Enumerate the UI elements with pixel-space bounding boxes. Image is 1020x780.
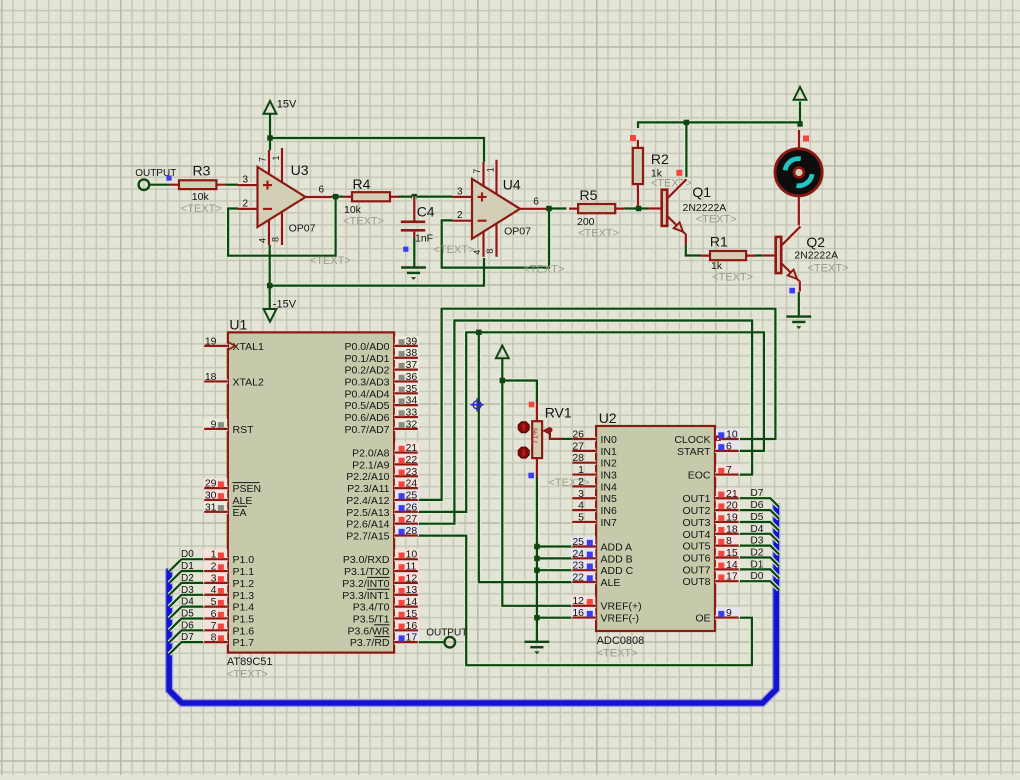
Q2 base lead xyxy=(762,253,776,257)
svg-text:P0.0/AD0: P0.0/AD0 xyxy=(345,341,390,353)
svg-text:CLOCK: CLOCK xyxy=(674,434,710,446)
svg-text:U4: U4 xyxy=(503,177,521,193)
svg-text:15V: 15V xyxy=(277,99,297,111)
svg-text:28: 28 xyxy=(406,525,418,537)
svg-text:P3.3/INT1: P3.3/INT1 xyxy=(342,590,389,602)
wire bus entry D7 (U1) xyxy=(169,642,204,654)
data bus D0-D7 xyxy=(169,503,776,703)
wire P3.7 to OUTPUT terminal xyxy=(418,641,445,643)
wire bus entry D0 (U1) xyxy=(169,559,204,571)
svg-text:12: 12 xyxy=(406,572,418,584)
svg-text:P2.2/A10: P2.2/A10 xyxy=(346,471,389,483)
resistor R5 xyxy=(569,187,624,240)
svg-text:8: 8 xyxy=(485,249,495,254)
svg-text:2N2222A: 2N2222A xyxy=(794,250,838,262)
svg-text:2: 2 xyxy=(578,476,584,488)
terminal OUTPUT (P3.7) xyxy=(426,628,467,648)
svg-text:<TEXT>: <TEXT> xyxy=(597,648,638,660)
svg-text:37: 37 xyxy=(406,359,418,371)
svg-text:16: 16 xyxy=(406,620,418,632)
svg-text:P0.4/AD4: P0.4/AD4 xyxy=(345,388,390,400)
blue tag Q2 emitter xyxy=(789,288,795,294)
origin marker xyxy=(471,398,484,411)
wire R3 to U3 pin3 xyxy=(224,184,240,186)
svg-text:OUT3: OUT3 xyxy=(682,517,710,529)
resistor R2 xyxy=(633,140,692,192)
wire U3 pin4 down to -15V node xyxy=(269,244,271,309)
svg-text:13: 13 xyxy=(406,584,418,596)
svg-text:XTAL2: XTAL2 xyxy=(233,376,264,388)
svg-text:3: 3 xyxy=(211,572,217,584)
svg-text:<TEXT>: <TEXT> xyxy=(712,272,753,284)
svg-text:10: 10 xyxy=(726,429,738,441)
svg-text:D6: D6 xyxy=(751,500,764,511)
svg-text:4: 4 xyxy=(211,584,217,596)
svg-text:71%: 71% xyxy=(531,428,540,444)
svg-text:OUT1: OUT1 xyxy=(682,493,710,505)
svg-text:1: 1 xyxy=(271,155,281,160)
svg-text:ADD B: ADD B xyxy=(601,553,633,565)
wire RV1 top lead wire xyxy=(502,381,537,404)
svg-text:OP07: OP07 xyxy=(289,223,316,235)
svg-text:P1.3: P1.3 xyxy=(233,590,255,602)
wire Q1 collector riser xyxy=(685,122,687,177)
svg-text:D4: D4 xyxy=(751,524,764,535)
svg-text:8: 8 xyxy=(271,237,281,242)
svg-text:4: 4 xyxy=(258,238,268,243)
svg-text:27: 27 xyxy=(572,440,584,452)
svg-text:P0.7/AD7: P0.7/AD7 xyxy=(345,424,390,436)
wire RV1 bottom to ground rail xyxy=(536,457,538,642)
junction +15V rail tap xyxy=(267,135,272,140)
svg-text:14: 14 xyxy=(726,559,738,571)
wire C4 lower lead to ground xyxy=(413,236,415,267)
svg-text:D3: D3 xyxy=(751,536,764,547)
svg-text:3: 3 xyxy=(578,488,584,500)
svg-text:P1.5: P1.5 xyxy=(233,614,255,626)
junction ADD B tap xyxy=(534,556,539,561)
svg-text:22: 22 xyxy=(572,572,584,584)
svg-text:C4: C4 xyxy=(417,204,435,220)
svg-text:32: 32 xyxy=(406,418,418,430)
wire -15V rail to U4 pin4 xyxy=(270,258,484,286)
svg-text:7: 7 xyxy=(726,464,732,476)
svg-text:10k: 10k xyxy=(344,204,362,216)
wire motor supply rail xyxy=(638,102,800,129)
svg-text:3: 3 xyxy=(242,175,248,186)
svg-text:2: 2 xyxy=(242,198,248,209)
svg-text:39: 39 xyxy=(406,335,418,347)
svg-text:D1: D1 xyxy=(181,561,194,572)
op-amp U3 (OP07) xyxy=(238,148,351,267)
svg-text:P1.4: P1.4 xyxy=(233,602,255,614)
wire ADD B branch xyxy=(537,557,572,559)
svg-text:20: 20 xyxy=(726,500,738,512)
wire U3 feedback loop xyxy=(228,197,336,256)
svg-text:P3.4/T0: P3.4/T0 xyxy=(353,602,390,614)
svg-text:30: 30 xyxy=(205,489,217,501)
svg-text:19: 19 xyxy=(726,512,738,524)
svg-text:24: 24 xyxy=(406,478,418,490)
svg-text:U3: U3 xyxy=(291,162,309,178)
wire ADD C branch xyxy=(537,569,572,571)
svg-text:ADC0808: ADC0808 xyxy=(597,635,645,647)
red tag R2 top xyxy=(630,135,636,141)
svg-text:P2.6/A14: P2.6/A14 xyxy=(346,519,389,531)
svg-text:D7: D7 xyxy=(751,488,764,499)
wire R5 to Q1 base node xyxy=(615,207,650,209)
svg-text:15: 15 xyxy=(726,547,738,559)
svg-text:7: 7 xyxy=(211,620,217,632)
svg-text:D7: D7 xyxy=(181,632,194,643)
svg-text:IN1: IN1 xyxy=(601,446,618,458)
svg-text:IN2: IN2 xyxy=(601,458,618,470)
ground RV1 chain xyxy=(525,642,550,654)
svg-text:1k: 1k xyxy=(711,260,723,272)
svg-text:10: 10 xyxy=(406,549,418,561)
svg-text:P0.1/AD1: P0.1/AD1 xyxy=(345,353,390,365)
wire Q1 emitter to R1 xyxy=(686,243,710,256)
wire P2.7 to OE xyxy=(418,536,752,666)
svg-text:ADD A: ADD A xyxy=(601,542,633,554)
red tag motor lead xyxy=(803,136,809,142)
svg-text:<TEXT>: <TEXT> xyxy=(227,669,268,681)
svg-text:Q1: Q1 xyxy=(692,184,711,200)
junction -15V rail tap xyxy=(267,283,272,288)
svg-text:RV1: RV1 xyxy=(545,405,572,421)
svg-text:D1: D1 xyxy=(751,559,764,570)
svg-text:38: 38 xyxy=(406,347,418,359)
wire bus entry D6 (U1) xyxy=(169,630,204,642)
wire OUTPUT terminal to R3 xyxy=(149,184,171,186)
svg-text:5: 5 xyxy=(211,596,217,608)
blue tag C4 xyxy=(403,247,408,252)
svg-text:10k: 10k xyxy=(192,191,210,203)
svg-text:24: 24 xyxy=(572,548,584,560)
R2 bottom lead xyxy=(636,184,640,208)
svg-text:11: 11 xyxy=(406,561,417,573)
svg-text:OUTPUT: OUTPUT xyxy=(426,628,467,639)
svg-text:IN5: IN5 xyxy=(601,493,618,505)
svg-text:R4: R4 xyxy=(353,176,371,192)
wire bus entry D2 (U2) xyxy=(739,558,779,567)
wire bus entry D2 (U1) xyxy=(169,583,204,595)
motor xyxy=(775,130,822,196)
svg-text:25: 25 xyxy=(406,489,418,501)
svg-text:P3.2/INT0: P3.2/INT0 xyxy=(342,578,389,590)
svg-text:D5: D5 xyxy=(751,512,764,523)
junction ADD C tap xyxy=(534,568,539,573)
svg-text:-15V: -15V xyxy=(273,299,297,311)
svg-text:ALE: ALE xyxy=(601,577,621,589)
resistor R3 xyxy=(170,163,225,216)
wire bus entry D1 (U2) xyxy=(739,569,779,578)
svg-text:2: 2 xyxy=(457,210,463,221)
junction R5/R2/Q1 node xyxy=(636,206,641,211)
svg-text:7: 7 xyxy=(258,157,268,162)
wire R4 to U4 pin3 xyxy=(390,196,454,198)
wire RV1 wiper to IN0 xyxy=(561,438,572,440)
motor to Q2 collector lead xyxy=(797,196,801,229)
svg-text:1: 1 xyxy=(486,167,496,172)
svg-text:Q2: Q2 xyxy=(806,234,825,250)
svg-text:P2.5/A13: P2.5/A13 xyxy=(346,507,389,519)
junction U4 output node xyxy=(546,206,551,211)
svg-text:1: 1 xyxy=(578,464,584,476)
svg-text:U2: U2 xyxy=(599,410,617,426)
svg-text:9: 9 xyxy=(211,418,217,430)
svg-text:6: 6 xyxy=(533,196,539,207)
svg-text:12: 12 xyxy=(572,595,584,607)
svg-text:D4: D4 xyxy=(181,597,194,608)
svg-text:OE: OE xyxy=(695,613,710,625)
svg-text:<TEXT>: <TEXT> xyxy=(808,263,849,275)
svg-text:P0.5/AD5: P0.5/AD5 xyxy=(345,400,390,412)
svg-text:17: 17 xyxy=(406,632,418,644)
svg-text:27: 27 xyxy=(406,513,418,525)
svg-text:OUT5: OUT5 xyxy=(682,541,710,553)
red tag RV1 top xyxy=(529,402,535,408)
svg-text:OUT4: OUT4 xyxy=(682,529,710,541)
wire bus entry D5 (U2) xyxy=(739,522,779,531)
svg-text:2N2222A: 2N2222A xyxy=(683,202,727,214)
svg-text:IN4: IN4 xyxy=(601,481,618,493)
wire VREF- branch xyxy=(537,617,572,619)
blue tag near OUTPUT terminal xyxy=(166,175,171,180)
svg-text:P3.0/RXD: P3.0/RXD xyxy=(343,554,390,566)
svg-text:D5: D5 xyxy=(181,609,194,620)
junction U3 output node xyxy=(333,194,338,199)
bus labels D0-D7 (U1 side) xyxy=(181,549,194,643)
wire U4 out to R5 xyxy=(544,207,567,209)
wire bus entry D4 (U2) xyxy=(739,534,779,543)
wire +15V rail to U4 pin7 xyxy=(270,138,484,164)
svg-text:IN0: IN0 xyxy=(601,434,618,446)
ground Q2 emitter xyxy=(786,317,811,329)
svg-text:23: 23 xyxy=(572,560,584,572)
wire ADD A branch xyxy=(537,545,572,547)
red tag R2 value xyxy=(676,170,682,176)
wire bus entry D0 (U2) xyxy=(739,581,779,590)
svg-text:4: 4 xyxy=(578,500,584,512)
svg-text:PSEN: PSEN xyxy=(233,483,262,495)
svg-text:1: 1 xyxy=(211,549,217,561)
svg-text:START: START xyxy=(677,446,711,458)
svg-text:P3.7/RD: P3.7/RD xyxy=(350,637,390,649)
svg-text:P1.6: P1.6 xyxy=(233,625,255,637)
svg-text:7: 7 xyxy=(472,169,482,174)
svg-text:RST: RST xyxy=(233,424,255,436)
svg-text:29: 29 xyxy=(205,478,217,490)
terminal OUTPUT (input side) xyxy=(135,168,176,190)
svg-text:D0: D0 xyxy=(181,549,194,560)
wire Q2 emitter to ground xyxy=(798,292,800,316)
svg-text:6: 6 xyxy=(319,185,325,196)
svg-text:OUT6: OUT6 xyxy=(682,553,710,565)
svg-text:D6: D6 xyxy=(181,620,194,631)
svg-text:34: 34 xyxy=(406,395,418,407)
svg-text:<TEXT>: <TEXT> xyxy=(310,255,351,267)
svg-text:P2.0/A8: P2.0/A8 xyxy=(352,448,390,460)
svg-text:EA: EA xyxy=(233,507,247,519)
junction rail/motor tap xyxy=(797,121,802,126)
svg-text:P0.2/AD2: P0.2/AD2 xyxy=(345,365,390,377)
svg-text:AT89C51: AT89C51 xyxy=(227,656,273,668)
svg-text:17: 17 xyxy=(726,571,738,583)
svg-text:<TEXT>: <TEXT> xyxy=(523,264,564,276)
svg-text:15: 15 xyxy=(406,608,418,620)
junction START/ALE tap xyxy=(476,330,481,335)
svg-text:18: 18 xyxy=(205,371,217,383)
svg-text:8: 8 xyxy=(726,535,732,547)
microcontroller U1 AT89C51 xyxy=(203,317,419,681)
svg-text:9: 9 xyxy=(726,607,732,619)
capacitor C4 xyxy=(401,197,475,256)
wire +15V stem to U3 pin7 xyxy=(269,114,271,151)
svg-text:1nF: 1nF xyxy=(415,233,433,245)
svg-text:R1: R1 xyxy=(710,234,728,250)
transistor Q1 (2N2222A) xyxy=(662,179,737,244)
svg-text:19: 19 xyxy=(205,335,217,347)
svg-text:P3.6/WR: P3.6/WR xyxy=(347,625,389,637)
resistor R1 xyxy=(701,234,755,284)
wire bus entry D5 (U1) xyxy=(169,619,204,631)
svg-text:P0.3/AD3: P0.3/AD3 xyxy=(345,376,390,388)
power -15V xyxy=(264,299,297,322)
wire bus entry D4 (U1) xyxy=(169,607,204,619)
svg-text:OUT7: OUT7 xyxy=(682,564,710,576)
svg-text:35: 35 xyxy=(406,383,418,395)
svg-text:VREF(+): VREF(+) xyxy=(601,601,642,613)
svg-text:D3: D3 xyxy=(181,585,194,596)
junction R4/C4 node xyxy=(412,194,417,199)
svg-text:P1.2: P1.2 xyxy=(233,578,255,590)
svg-text:R3: R3 xyxy=(193,163,211,179)
svg-text:P2.7/A15: P2.7/A15 xyxy=(346,531,389,543)
svg-text:P1.7: P1.7 xyxy=(233,637,255,649)
wire START branch to ALE xyxy=(479,332,573,582)
svg-text:D2: D2 xyxy=(751,548,764,559)
power arrow motor supply xyxy=(794,87,807,100)
svg-text:8: 8 xyxy=(211,632,217,644)
wire bus entry D6 (U2) xyxy=(739,510,779,519)
svg-text:P2.3/A11: P2.3/A11 xyxy=(347,483,390,495)
junction +V tap xyxy=(500,378,505,383)
ADC U2 ADC0808 xyxy=(571,410,740,660)
wire bus entry D3 (U1) xyxy=(169,595,204,607)
svg-text:IN7: IN7 xyxy=(601,517,618,529)
transistor Q2 (2N2222A) xyxy=(776,227,849,292)
svg-text:XTAL1: XTAL1 xyxy=(233,341,264,353)
junction VREF- tap xyxy=(534,615,539,620)
svg-text:<TEXT>: <TEXT> xyxy=(181,203,222,215)
wire P2.5 to START xyxy=(418,332,764,512)
wire +V to RV1 and VREF+ xyxy=(502,358,572,606)
svg-text:14: 14 xyxy=(406,596,418,608)
svg-text:25: 25 xyxy=(572,536,584,548)
wire P2.6 to EOC xyxy=(418,321,752,524)
svg-text:<TEXT>: <TEXT> xyxy=(343,216,384,228)
svg-text:23: 23 xyxy=(406,466,418,478)
wire bus entry D7 (U2) xyxy=(739,498,779,507)
svg-text:22: 22 xyxy=(406,454,418,466)
wire P2.4 to CLOCK xyxy=(418,309,776,500)
svg-text:<TEXT>: <TEXT> xyxy=(434,244,475,256)
svg-text:OUT8: OUT8 xyxy=(682,576,710,588)
svg-text:R5: R5 xyxy=(580,187,598,203)
svg-text:18: 18 xyxy=(726,523,738,535)
svg-text:D0: D0 xyxy=(751,571,764,582)
svg-text:4: 4 xyxy=(472,250,482,255)
wire U4 feedback loop xyxy=(442,209,549,268)
svg-text:36: 36 xyxy=(406,371,418,383)
svg-text:31: 31 xyxy=(205,501,217,513)
svg-text:200: 200 xyxy=(577,216,595,228)
svg-text:5: 5 xyxy=(578,512,584,524)
svg-text:ADD C: ADD C xyxy=(601,565,634,577)
blue tag RV1 bottom xyxy=(528,473,534,479)
svg-text:6: 6 xyxy=(726,440,732,452)
svg-text:VREF(-): VREF(-) xyxy=(601,613,640,625)
svg-text:IN3: IN3 xyxy=(601,470,618,482)
ground C4 xyxy=(401,268,426,280)
svg-text:IN6: IN6 xyxy=(601,505,618,517)
svg-text:U1: U1 xyxy=(229,317,247,333)
svg-text:2: 2 xyxy=(211,561,217,573)
svg-text:P2.4/A12: P2.4/A12 xyxy=(346,495,389,507)
wire halo layer xyxy=(149,102,800,666)
wire bus entry D3 (U2) xyxy=(739,546,779,555)
svg-text:6: 6 xyxy=(211,608,217,620)
svg-text:33: 33 xyxy=(406,407,418,419)
junction rail/Q1 tap xyxy=(684,120,689,125)
svg-text:3: 3 xyxy=(457,186,463,197)
wire R1 to Q2 base xyxy=(746,254,763,256)
svg-text:EOC: EOC xyxy=(688,470,711,482)
svg-text:<TEXT>: <TEXT> xyxy=(696,214,737,226)
wire U3 out to R4 xyxy=(331,196,345,198)
power +15V xyxy=(264,99,297,114)
svg-text:ALE: ALE xyxy=(233,495,253,507)
svg-text:P3.1/TXD: P3.1/TXD xyxy=(344,566,390,578)
wire bus entry D1 (U1) xyxy=(169,571,204,583)
svg-text:OP07: OP07 xyxy=(504,226,531,238)
svg-text:R2: R2 xyxy=(651,151,669,167)
resistor R4 xyxy=(343,176,399,228)
svg-text:D2: D2 xyxy=(181,573,194,584)
svg-text:21: 21 xyxy=(726,488,738,500)
svg-text:P0.6/AD6: P0.6/AD6 xyxy=(345,412,390,424)
Q1 base lead xyxy=(648,206,662,210)
potentiometer RV1 xyxy=(518,402,589,489)
op-amp U4 (OP07) xyxy=(453,160,565,276)
bus labels D7-D0 (U2 side) xyxy=(751,488,764,582)
svg-text:26: 26 xyxy=(572,429,584,441)
junction ADD A tap xyxy=(534,544,539,549)
svg-text:OUT2: OUT2 xyxy=(682,505,710,517)
svg-text:P3.5/T1: P3.5/T1 xyxy=(353,614,390,626)
svg-text:P1.1: P1.1 xyxy=(233,566,255,578)
svg-text:16: 16 xyxy=(572,607,584,619)
svg-text:28: 28 xyxy=(572,452,584,464)
svg-text:26: 26 xyxy=(406,501,418,513)
svg-text:21: 21 xyxy=(406,442,418,454)
svg-text:<TEXT>: <TEXT> xyxy=(578,228,619,240)
svg-text:P2.1/A9: P2.1/A9 xyxy=(352,459,390,471)
power arrow Vref supply xyxy=(496,346,509,359)
svg-text:P1.0: P1.0 xyxy=(233,554,255,566)
